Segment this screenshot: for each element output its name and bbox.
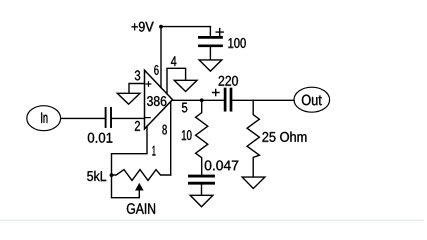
- wire pin6 vertical from +9V: [160, 27, 162, 88]
- op-amp U1 plus input mark: [146, 82, 151, 87]
- label C2 value 100: [228, 38, 245, 48]
- wire pin5 to C3: [173, 99, 224, 101]
- wire C2 bottom to ground: [209, 47, 211, 60]
- label C3 polarity plus: [213, 89, 219, 95]
- wire +9V rail horizontal: [161, 26, 210, 28]
- wire C3 to Out: [232, 99, 294, 101]
- label pin 5: [182, 103, 187, 113]
- ground for pin 4: [174, 80, 197, 91]
- capacitor C4 0.047 plates: [190, 176, 214, 183]
- node +9V label: [132, 22, 154, 32]
- ground for C4: [190, 195, 213, 207]
- label C3 value 220: [219, 76, 238, 86]
- pot wiper arrow: [135, 183, 144, 191]
- label pin 8: [162, 125, 166, 135]
- wire pot wiper bottom path: [112, 175, 140, 198]
- label pin 4: [171, 56, 176, 66]
- capacitor C1 0.01 plates: [106, 108, 111, 127]
- wire pin4 to ground: [167, 68, 186, 94]
- label pin 2: [135, 121, 140, 131]
- resistor R2 25 Ohm vertical zigzag: [247, 100, 259, 176]
- label R3 value 5kL: [87, 171, 106, 181]
- label U1 386: [147, 96, 166, 106]
- potentiometer R3 5k zigzag: [112, 170, 171, 181]
- junction dot pot left terminal: [110, 173, 114, 177]
- resistor R1 10 vertical zigzag: [196, 100, 208, 174]
- op-amp U1 386 triangle: [145, 70, 173, 129]
- divider line bottom: [0, 220, 424, 222]
- port In ellipse: [27, 106, 61, 131]
- label C4 value 0.047: [205, 160, 238, 170]
- op-amp U1 minus input mark: [146, 117, 150, 119]
- wire pin3 to ground: [129, 84, 145, 94]
- label In: [41, 112, 47, 122]
- label pin 1: [152, 146, 155, 156]
- wire C4 to ground: [201, 185, 203, 196]
- wire C1 to pin2: [112, 117, 145, 119]
- label pin 6: [154, 65, 158, 75]
- wire In to C1: [61, 117, 105, 119]
- label pin 3: [135, 70, 140, 80]
- label R1 value 10: [182, 130, 192, 140]
- wire +9V down to C2 top plate: [209, 27, 211, 37]
- junction dot +9V node: [159, 25, 163, 29]
- ground for R2: [242, 177, 265, 188]
- label GAIN: [127, 203, 155, 214]
- wire pin8 vertical: [170, 102, 172, 176]
- label R2 value 25 Ohm: [262, 132, 306, 142]
- ground for pin 3: [117, 93, 140, 104]
- wire pin1 path: [112, 126, 148, 175]
- label C1 value 0.01: [88, 133, 113, 143]
- junction dot pin5/R1: [200, 98, 204, 102]
- port Out ellipse: [294, 87, 330, 112]
- capacitor C3 220uF plates: [225, 89, 231, 110]
- label C2 polarity plus: [216, 29, 223, 36]
- capacitor C2 100uF plates: [199, 37, 221, 45]
- label Out: [302, 95, 322, 106]
- ground for C2: [199, 60, 222, 71]
